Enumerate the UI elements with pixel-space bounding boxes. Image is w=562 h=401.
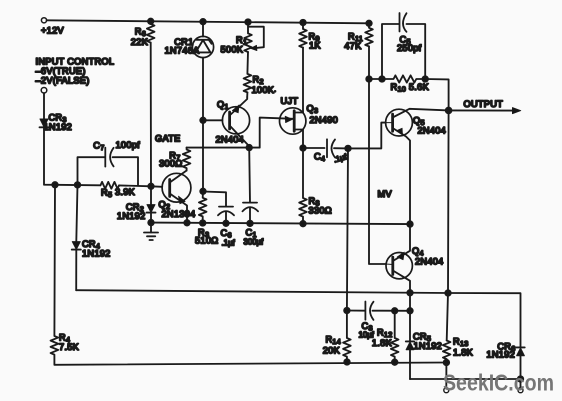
node Q1 base [200, 118, 206, 124]
svg-text:R5: R5 [101, 188, 112, 200]
wire R11 to node A [368, 46, 370, 79]
svg-text:20K: 20K [323, 346, 341, 356]
capacitor C4 .1uf [303, 139, 349, 164]
node C3 left / R14 top [344, 308, 350, 314]
node C5 left [379, 76, 385, 82]
wire R2 to Q1 emitter [246, 92, 248, 97]
svg-text:.1μf: .1μf [222, 239, 236, 248]
diode CR6 1N192 [486, 342, 524, 380]
diode CR2 1N192 [117, 186, 156, 222]
capacitor C3 10uf [347, 302, 410, 340]
label GATE [155, 134, 181, 144]
label +12V [41, 26, 64, 36]
watermark SeekIC.com [443, 370, 554, 396]
resistor R5 3.9K [101, 182, 136, 199]
diode CR4 1N192 [72, 185, 111, 290]
diode CR5 1N192 [406, 293, 442, 379]
wire R9 to UJT base2 [302, 48, 304, 113]
wire node A to C5 loop [369, 78, 382, 80]
svg-text:Q1: Q1 [217, 100, 229, 112]
ground [144, 223, 158, 240]
svg-text:INPUT CONTROL: INPUT CONTROL [36, 57, 115, 67]
svg-text:–2V(FALSE): –2V(FALSE) [36, 76, 90, 86]
zener diode CR1 1N746A [164, 22, 213, 121]
resistor R10 5.6K [382, 75, 430, 93]
node C6 bottom [223, 221, 229, 227]
resistor R9 1K [299, 23, 321, 51]
svg-text:7.5K: 7.5K [59, 342, 80, 352]
svg-text:330Ω: 330Ω [309, 206, 332, 216]
resistor R13 1.8K [443, 337, 474, 363]
node R14 bottom [344, 359, 350, 365]
capacitor C6 .1uf [203, 192, 235, 248]
node top of R11 [366, 21, 372, 27]
terminal input control [41, 88, 47, 94]
transistor Q4 2N404 [386, 224, 444, 293]
svg-text:2N404: 2N404 [216, 135, 245, 145]
svg-text:1N192: 1N192 [82, 249, 111, 259]
node C1 bottom [247, 221, 253, 227]
wire node A down to Q4 base [369, 79, 386, 264]
transistor Q2 2N1304 [151, 171, 195, 223]
resistor R11 47K [344, 23, 373, 51]
node CR6 bottom [518, 376, 524, 382]
wire bottom rail [151, 223, 410, 225]
node on feedback rail at R13 line [445, 290, 451, 296]
wire R1 to R2 [246, 52, 249, 74]
node common emitters [407, 221, 413, 227]
svg-text:47K: 47K [344, 41, 362, 51]
capacitor C5 250pf [382, 13, 425, 79]
node top of R1 [245, 19, 251, 25]
node Q2 base [148, 184, 154, 190]
node C4 right [345, 146, 351, 152]
wire CR1 line down to R3 node [202, 120, 204, 191]
node R12 bottom [392, 359, 398, 365]
terminal bottom right [518, 388, 523, 393]
svg-text:1.8K: 1.8K [372, 338, 393, 348]
wire step to UJT emitter [249, 118, 293, 148]
svg-text:3.9K: 3.9K [115, 187, 136, 197]
node R12 top [392, 308, 398, 314]
terminal +12V [41, 18, 46, 23]
svg-text:OUTPUT: OUTPUT [464, 99, 504, 109]
svg-text:R13: R13 [453, 337, 469, 349]
svg-text:500K: 500K [221, 45, 244, 55]
svg-text:1N192: 1N192 [44, 122, 73, 132]
node Q1 collector / R7 / C1 / UJT emitter [246, 145, 252, 151]
svg-text:+12V: +12V [41, 26, 64, 36]
resistor R3 510 ohm [195, 191, 218, 245]
node UJT base1 / C4 / R8 [300, 145, 306, 151]
svg-text:1N192: 1N192 [414, 341, 443, 351]
resistor R8 330 ohm [299, 148, 332, 221]
svg-text:300Ω: 300Ω [159, 159, 182, 169]
svg-text:2N404: 2N404 [418, 126, 447, 136]
svg-text:22K: 22K [131, 37, 149, 47]
node R13 bottom [444, 360, 450, 366]
wire R13 to terminal [445, 363, 447, 388]
node C3 right on CR5 line [407, 308, 413, 314]
svg-text:300μf: 300μf [244, 238, 265, 247]
svg-text:1K: 1K [309, 41, 321, 51]
resistor R14 20K [323, 311, 351, 363]
node R4 tap [52, 182, 58, 188]
wire C4 to Q5 base [348, 123, 386, 149]
svg-text:R10 5.6K: R10 5.6K [391, 82, 430, 94]
svg-text:1N192: 1N192 [486, 350, 515, 360]
resistor R12 1.8K [372, 311, 399, 362]
node Q4 collector [407, 290, 413, 296]
svg-text:2N1304: 2N1304 [162, 209, 196, 219]
svg-text:250pf: 250pf [397, 43, 422, 53]
wire CR4 feedback rail [76, 290, 448, 293]
svg-text:–6V(TRUE): –6V(TRUE) [36, 66, 86, 76]
capacitor C7 100pf [78, 140, 141, 185]
wire input terminal to CR3 [43, 93, 45, 119]
wire feedback rail to CR6 [448, 293, 521, 347]
resistor R2 100K [244, 74, 277, 95]
node top of R9 [300, 20, 306, 26]
svg-text:1N192: 1N192 [117, 211, 146, 221]
svg-text:100pf: 100pf [116, 140, 141, 150]
label INPUT CONTROL [36, 57, 115, 86]
node R3 bottom [200, 220, 206, 226]
UJT Q3 2N490 [280, 96, 339, 148]
wire C4 node down to C3 node [347, 148, 348, 310]
svg-text:1.8K: 1.8K [453, 348, 474, 358]
node Q2 emitter on rail [184, 220, 190, 226]
transistor Q5 2N404 [386, 109, 449, 224]
svg-text:Q3: Q3 [307, 104, 319, 116]
wire output node down to R13 [447, 110, 449, 340]
node ground junction [148, 220, 154, 226]
svg-text:UJT: UJT [281, 96, 299, 106]
svg-text:1N746A: 1N746A [164, 46, 200, 56]
wire CR6 terminal stub [520, 379, 522, 388]
wire +12V rail [47, 20, 369, 23]
wire long bottom rail [54, 363, 446, 365]
svg-text:2N404: 2N404 [415, 257, 444, 267]
node R3 top [200, 189, 206, 195]
resistor R4 7.5K [51, 185, 80, 365]
wire R6 to Q2 base node [150, 43, 152, 187]
wire OUTPUT arrow [449, 99, 521, 114]
diode CR3 1N192 [40, 113, 73, 133]
node R8 bottom [300, 221, 306, 227]
wire CR3 to R5 line [44, 127, 101, 185]
resistor R6 [131, 21, 155, 47]
label MV [378, 189, 393, 199]
svg-text:R14: R14 [325, 335, 341, 347]
svg-text:GATE: GATE [155, 134, 181, 144]
wire ground return rail [410, 378, 521, 380]
node C7 left / CR4 tap [75, 182, 81, 188]
node top of CR1 [200, 19, 206, 25]
node C5 right [422, 76, 428, 82]
capacitor C1 300uf [243, 148, 265, 247]
svg-text:C4: C4 [314, 152, 325, 164]
svg-text:MV: MV [378, 189, 393, 199]
node top of R6 [148, 19, 154, 25]
potentiometer R1 500K [221, 22, 264, 55]
svg-text:C7: C7 [93, 141, 104, 153]
node OUTPUT [446, 108, 452, 114]
transistor Q1 2N404 [203, 97, 250, 148]
wire R5 to Q2 base node [119, 184, 151, 187]
svg-text:510Ω: 510Ω [195, 236, 218, 246]
terminal bottom left of watermark [444, 388, 449, 393]
svg-text:100K·: 100K· [252, 85, 277, 95]
svg-text:SeekIC.com: SeekIC.com [443, 370, 554, 396]
node A R11 bottom [366, 76, 372, 82]
resistor R7 300 ohm [159, 148, 190, 171]
wire R7 top to Q1 collector node [187, 147, 250, 149]
wire R10 to output node [425, 79, 448, 110]
svg-text:2N490: 2N490 [310, 115, 339, 125]
svg-text:.1μf: .1μf [333, 152, 349, 165]
